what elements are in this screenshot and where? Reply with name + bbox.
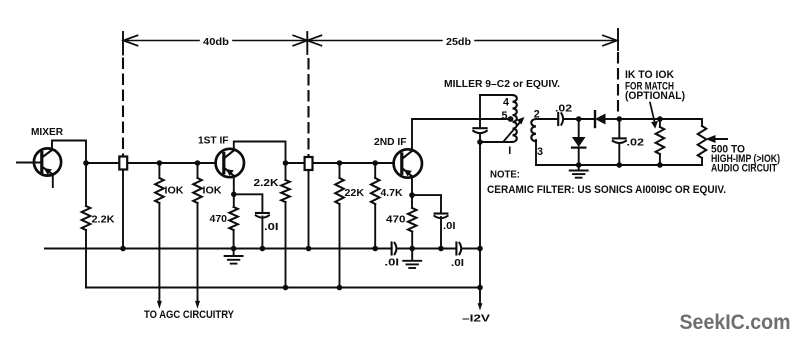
svg-text:–I2V: –I2V: [462, 314, 490, 325]
ground symbol G1 stub: [233, 249, 235, 256]
diode D1 triangle: [595, 114, 606, 125]
Q2 emitter wire down: [233, 176, 235, 195]
T3 bottom junction dot: [477, 139, 483, 145]
node F junction dot for R7: [372, 160, 378, 166]
wire ground bus middle section: [397, 248, 456, 250]
capacitor C7 .02 top lead: [618, 119, 620, 138]
T3 left vertical lower segment: [479, 134, 481, 143]
Q3 emitter junction dot: [409, 192, 415, 198]
wire emitter junction to bypass cap C1: [234, 194, 263, 212]
capacitor C7 .02 top plate: [613, 137, 626, 139]
wire R2 down to AGC arrow: [158, 203, 160, 303]
supply junction dot on -12V rail: [477, 285, 483, 291]
diode D2 anode bar: [572, 147, 585, 149]
wire node D to IFT2: [286, 162, 305, 164]
capacitor C3 .01 series curved plate: [395, 243, 397, 254]
wire C1 to ground bus: [261, 217, 263, 249]
C1 ground junction dot: [260, 246, 266, 252]
resistor R2 10K stem: [158, 163, 160, 178]
Q3 base bar: [400, 154, 403, 173]
svg-text:TO AGC CIRCUITRY: TO AGC CIRCUITRY: [144, 309, 234, 321]
T3 tuning arrow: [504, 121, 522, 142]
T2 ground junction dot: [306, 246, 312, 252]
ground G1 bar 2: [228, 259, 239, 261]
diode D2 bottom lead: [578, 148, 580, 165]
transistor Q1 MIXER circle: [34, 148, 61, 175]
Q3 collector diagonal: [402, 151, 412, 159]
svg-text:IK TO IOK: IK TO IOK: [625, 69, 674, 81]
capacitor C1 .01 top plate: [256, 212, 269, 214]
svg-text:470: 470: [386, 215, 406, 226]
resistor R1 2.2K body: [82, 206, 91, 230]
resistor R8 470 stem: [411, 195, 413, 208]
Q2 emitter PNP arrowhead: [226, 169, 234, 176]
AGC arrowhead right: [195, 301, 200, 309]
resistor R5 2.2K body: [281, 180, 290, 202]
T3 bottom wire: [480, 141, 513, 143]
capacitor C1 .01 curved plate: [256, 215, 269, 217]
dimension line 25db left segment: [307, 40, 442, 42]
R9 rail junction dot: [657, 162, 663, 168]
capacitor C2 .01 top plate: [435, 212, 448, 214]
dimension arrowhead middle pointing left: [307, 35, 321, 45]
-12V arrowhead: [478, 303, 483, 310]
R7 ground junction dot: [372, 246, 378, 252]
ground G3 bar 3: [576, 177, 582, 179]
resistor R10 500 pot body: [698, 126, 707, 158]
capacitor C6 .02 left plate: [557, 113, 559, 125]
wire node G to diode D1: [579, 118, 595, 120]
Q1 emitter PNP arrowhead: [44, 168, 52, 175]
dimension line 40db left segment: [123, 40, 199, 42]
svg-text:(OPTIONAL): (OPTIONAL): [625, 90, 685, 102]
dimension arrowhead middle pointing right: [293, 35, 307, 45]
resistor R9 1K-10K body: [656, 127, 665, 154]
wire Q1 collector up and over to node A: [52, 141, 86, 164]
ground G3 bar 2: [573, 173, 584, 175]
IF transformer T2 box: [305, 157, 313, 170]
transistor Q2 1ST IF circle: [216, 149, 244, 177]
wire ground bus right section: [462, 248, 480, 250]
dimension line 25db right segment: [475, 40, 617, 42]
node A junction dot: [83, 160, 89, 166]
svg-text:1ST IF: 1ST IF: [198, 135, 229, 146]
svg-text:2: 2: [534, 108, 540, 120]
wire -12V rail (lower bus): [86, 287, 480, 289]
Q3 emitter wire down: [411, 176, 413, 195]
Q2 emitter diagonal: [224, 168, 234, 176]
T3 tap pin 5 junction dot: [508, 116, 514, 122]
resistor R6 22K stem: [339, 163, 341, 178]
wire C2 to ground bus: [440, 217, 442, 249]
wire node A to IFT1: [86, 162, 119, 164]
capacitor C5 tank curved plate: [473, 131, 487, 133]
wire secondary bottom down to output rail: [535, 140, 537, 165]
Q2 collector diagonal: [224, 151, 234, 159]
svg-text:NOTE:: NOTE:: [490, 169, 520, 180]
svg-text:22K: 22K: [345, 188, 365, 199]
R5 rail junction dot: [283, 285, 289, 291]
wire supply drop from T3 to ground bus: [479, 142, 481, 249]
svg-text:IOK: IOK: [165, 185, 184, 196]
Q1 base bar: [40, 153, 43, 172]
svg-text:3: 3: [537, 146, 543, 158]
wire node H to matching resistor: [619, 118, 660, 120]
dashed marker line at first IF transformer: [122, 59, 124, 157]
wire ground bus left end: [45, 248, 392, 250]
Q2 base bar: [222, 154, 225, 173]
diode D2 triangle pointing down: [572, 137, 586, 147]
T3 tuning arrowhead: [517, 117, 525, 125]
ground G1 bar 3: [231, 263, 237, 265]
transformer T3 top wire: [480, 94, 513, 96]
wire Q2 collector up over to node D: [234, 142, 286, 164]
resistor R9 1K-10K top stem: [659, 119, 661, 127]
svg-text:MIXER: MIXER: [31, 127, 63, 138]
node C junction dot for R3: [195, 160, 201, 166]
dimension tick left: [122, 32, 124, 55]
T1 bottom lead to ground bus: [122, 170, 124, 249]
D2 rail junction dot: [576, 162, 582, 168]
Q3 emitter diagonal: [402, 168, 412, 176]
wire R4 to ground bus: [233, 230, 235, 249]
ground G2 bar 2: [407, 263, 418, 265]
resistor R4 470 stem: [233, 194, 235, 207]
resistor R1 2.2K stem top: [85, 163, 87, 206]
resistor R8 470 body: [408, 208, 417, 232]
dashed marker line at second IF transformer: [307, 59, 309, 157]
svg-text:5: 5: [502, 110, 508, 122]
svg-text:.02: .02: [555, 104, 572, 115]
svg-text:.0I: .0I: [264, 222, 279, 233]
R8 ground junction dot: [409, 246, 415, 252]
svg-text:.0I: .0I: [385, 258, 400, 269]
C7 rail junction dot: [617, 162, 623, 168]
wire C6 to node G: [565, 118, 579, 120]
svg-text:2.2K: 2.2K: [92, 214, 116, 225]
ground G2 bar 3: [409, 267, 415, 269]
wire T2 to 2ND IF base: [313, 162, 395, 164]
R9 callout arrowhead: [651, 121, 658, 129]
svg-text:SeekIC.com: SeekIC.com: [680, 311, 791, 334]
resistor R7 4.7K stem: [374, 163, 376, 178]
wire R5 down to -12V rail: [285, 202, 287, 288]
node I junction dot: [657, 116, 663, 122]
svg-text:4: 4: [503, 97, 509, 109]
wire secondary top to coupling cap: [536, 118, 558, 120]
dimension tick right: [617, 29, 619, 50]
T3 secondary coil winding: [531, 119, 536, 142]
resistor R5 2.2K stem: [285, 163, 287, 180]
node D junction dot (Q2 collector node): [283, 160, 289, 166]
node B junction dot for R2: [157, 160, 163, 166]
resistor R3 10K body: [193, 178, 202, 203]
node G junction dot: [576, 116, 582, 122]
T2 bottom lead to ground bus: [308, 170, 310, 249]
T1 ground junction dot: [120, 246, 126, 252]
T3 left vertical upper segment: [479, 95, 481, 127]
dimension arrowhead at right tick: [603, 35, 617, 45]
Q1 emitter diagonal: [42, 167, 53, 175]
wire Q3 collector up and right to transformer tap: [412, 119, 511, 151]
resistor R1 stem down to -12V rail: [85, 230, 87, 288]
diode D2 top lead: [578, 119, 580, 137]
node E junction dot for R6: [337, 160, 343, 166]
svg-text:CERAMIC FILTER: US SONICS AI00: CERAMIC FILTER: US SONICS AI00I9C OR EQU…: [487, 184, 726, 196]
capacitor C4 .01 series left plate: [455, 243, 457, 255]
svg-text:25db: 25db: [446, 37, 471, 48]
Q3 emitter PNP arrowhead: [404, 170, 412, 177]
Q1 emitter stub wire: [52, 175, 54, 188]
ground G3 bar 1: [570, 170, 588, 172]
capacitor C6 .02 curved plate: [561, 113, 563, 124]
svg-text:4.7K: 4.7K: [381, 188, 403, 199]
ground symbol G3 stub: [578, 165, 580, 170]
R10 wiper arrow line: [712, 138, 727, 140]
svg-text:.0I: .0I: [443, 221, 456, 232]
capacitor C7 bottom lead: [618, 144, 620, 165]
svg-text:470: 470: [210, 214, 228, 225]
capacitor C2 .01 curved plate: [434, 216, 447, 218]
resistor R4 470 body: [229, 207, 238, 230]
diode D1 cathode bar: [594, 111, 596, 127]
resistor R9 bottom stem: [659, 154, 661, 165]
dimension line 40db right segment: [233, 40, 307, 42]
capacitor C7 .02 curved plate: [613, 141, 626, 143]
wire Q3 emitter junction to bypass cap C2: [412, 195, 441, 212]
ground G2 bar 1: [403, 260, 421, 262]
svg-text:AUDIO CIRCUIT: AUDIO CIRCUIT: [711, 163, 777, 175]
resistor R6 22K body: [335, 178, 344, 204]
capacitor C5 tank top plate: [473, 127, 486, 129]
AGC arrowhead left: [157, 301, 162, 309]
ground symbol G2 stub: [411, 249, 413, 261]
R10 bottom stem to rail corner: [701, 158, 703, 165]
svg-text:2.2K: 2.2K: [254, 178, 280, 189]
svg-text:40db: 40db: [203, 37, 229, 48]
dimension arrowhead at left tick: [123, 35, 137, 45]
T3 primary coil winding: [513, 95, 517, 142]
svg-text:MILLER 9–C2 or EQUIV.: MILLER 9–C2 or EQUIV.: [444, 79, 560, 90]
wire node I to 500 pot top: [660, 119, 702, 126]
R4 ground junction dot: [231, 246, 237, 252]
wire R7 to ground bus: [374, 204, 376, 249]
node H junction dot: [617, 116, 623, 122]
wire R6 down to -12V rail: [339, 204, 341, 288]
svg-text:.0I: .0I: [451, 258, 464, 269]
svg-text:2ND IF: 2ND IF: [374, 137, 407, 148]
svg-text:IOK: IOK: [203, 185, 222, 196]
R10 wiper arrowhead: [706, 135, 716, 143]
-12V feed arrow line: [479, 288, 481, 307]
wire output bottom rail: [536, 164, 702, 166]
R6 rail junction dot: [337, 285, 343, 291]
C2 ground junction dot: [438, 246, 444, 252]
wire R8 to ground bus: [411, 232, 413, 249]
transistor Q3 2ND IF circle: [394, 149, 422, 177]
wire R3 down to AGC arrow: [197, 203, 199, 303]
resistor R2 10K body: [155, 178, 164, 203]
capacitor C4 .01 series curved plate: [459, 243, 461, 254]
dashed marker line at detector output node: [617, 53, 619, 116]
svg-text:.02: .02: [627, 138, 645, 149]
IF transformer T1 box: [119, 157, 127, 170]
svg-text:I: I: [508, 145, 511, 157]
resistor R3 10K stem: [197, 163, 199, 178]
Q1 base lead wire: [17, 162, 42, 164]
dimension tick middle: [306, 32, 308, 54]
supply junction dot on ground bus: [477, 246, 483, 252]
ground G1 bar 1: [225, 255, 243, 257]
Q2 emitter junction dot: [231, 192, 237, 198]
Q1 collector diagonal: [42, 150, 52, 158]
resistor R7 4.7K body: [371, 178, 380, 204]
wire supply drop to -12V rail: [479, 249, 481, 288]
capacitor C3 .01 series left plate: [391, 243, 393, 255]
wire T1 to 1ST IF base: [127, 162, 216, 164]
R9 callout arrow line: [650, 103, 655, 124]
wire D1 to node H: [606, 118, 620, 120]
